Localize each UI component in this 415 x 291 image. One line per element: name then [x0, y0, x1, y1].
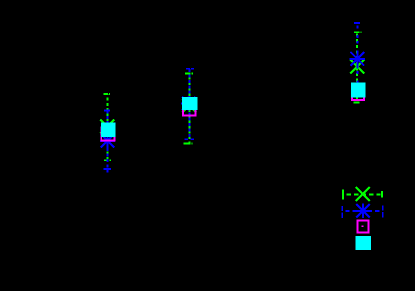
- cluster1 cyan square: [101, 122, 116, 137]
- cluster4 magenta square: [358, 221, 369, 233]
- cluster3 green X marker: [350, 60, 364, 74]
- cluster4 cyan square: [355, 236, 371, 250]
- cluster4 blue right cap: [382, 206, 384, 218]
- cluster1 green top cap: [103, 93, 110, 95]
- cluster1 magenta square: [101, 127, 114, 140]
- cluster2 blue error line: [189, 69, 191, 140]
- cluster4 green X marker: [356, 187, 370, 201]
- cluster1 blue asterisk marker: [100, 134, 115, 148]
- cluster3 green error line: [356, 32, 358, 102]
- cluster2 cyan square: [182, 97, 197, 110]
- cluster4 magenta center dot: [362, 225, 364, 227]
- cluster2 magenta square: [183, 103, 196, 116]
- cluster2 green bottom cap: [183, 143, 192, 145]
- cluster2 green X marker: [182, 98, 196, 112]
- cluster4 green horizontal error line: [343, 193, 382, 195]
- cluster3 green bottom cap: [354, 102, 360, 104]
- cluster4 blue asterisk marker: [355, 204, 370, 218]
- cluster2 blue top cap: [186, 68, 194, 70]
- cluster3 blue top cap: [354, 22, 360, 24]
- cluster1 green bottom cap: [104, 159, 111, 161]
- cluster2 green error line: [189, 73, 191, 143]
- cluster1 green X marker: [100, 120, 114, 134]
- cluster2 green top cap: [185, 72, 193, 74]
- cluster3 green top cap: [354, 31, 362, 33]
- cluster1 blue error line: [107, 111, 109, 170]
- cluster1 blue top cap: [104, 110, 110, 112]
- cluster3 cyan square: [351, 82, 366, 97]
- cluster2 blue bottom cap: [185, 138, 195, 140]
- cluster4 blue left cap: [341, 206, 343, 218]
- cluster3 blue error line: [356, 23, 358, 94]
- cluster4 blue horizontal error line: [342, 210, 382, 212]
- cluster1 green error line: [106, 94, 108, 160]
- cluster1 blue bottom cap: [103, 169, 111, 172]
- cluster2 blue asterisk marker: [181, 96, 196, 110]
- cluster3 magenta square: [352, 88, 364, 100]
- cluster3 blue asterisk marker: [350, 52, 365, 66]
- cluster4 green left cap: [342, 190, 344, 200]
- cluster4 green right cap: [381, 191, 383, 198]
